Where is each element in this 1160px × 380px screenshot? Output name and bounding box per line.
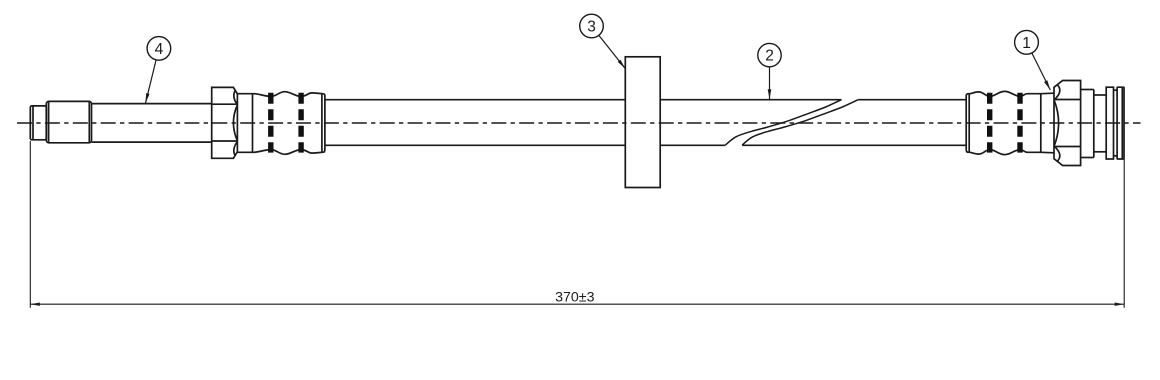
svg-text:1: 1 [1022,35,1031,52]
svg-text:370±3: 370±3 [555,290,594,306]
svg-text:4: 4 [155,41,164,58]
svg-text:2: 2 [765,48,774,65]
svg-text:3: 3 [587,19,596,36]
